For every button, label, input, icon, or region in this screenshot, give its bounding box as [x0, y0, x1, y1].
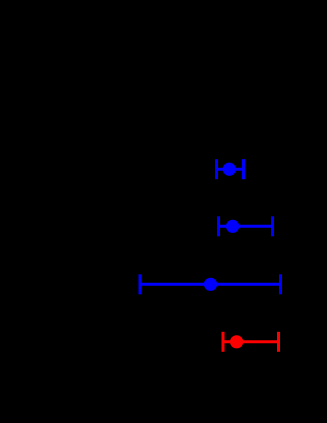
error bar row 2 (blue) [219, 216, 273, 236]
error bar row 4 (red) [223, 332, 279, 352]
marker row 3 (blue circle) [204, 278, 217, 291]
error bar row 3 (blue) [140, 274, 281, 294]
error bar row 1 (blue) [217, 159, 244, 179]
marker row 2 (blue circle) [226, 220, 239, 233]
marker row 4 (red circle) [230, 335, 243, 348]
marker row 1 (blue circle) [223, 163, 236, 176]
